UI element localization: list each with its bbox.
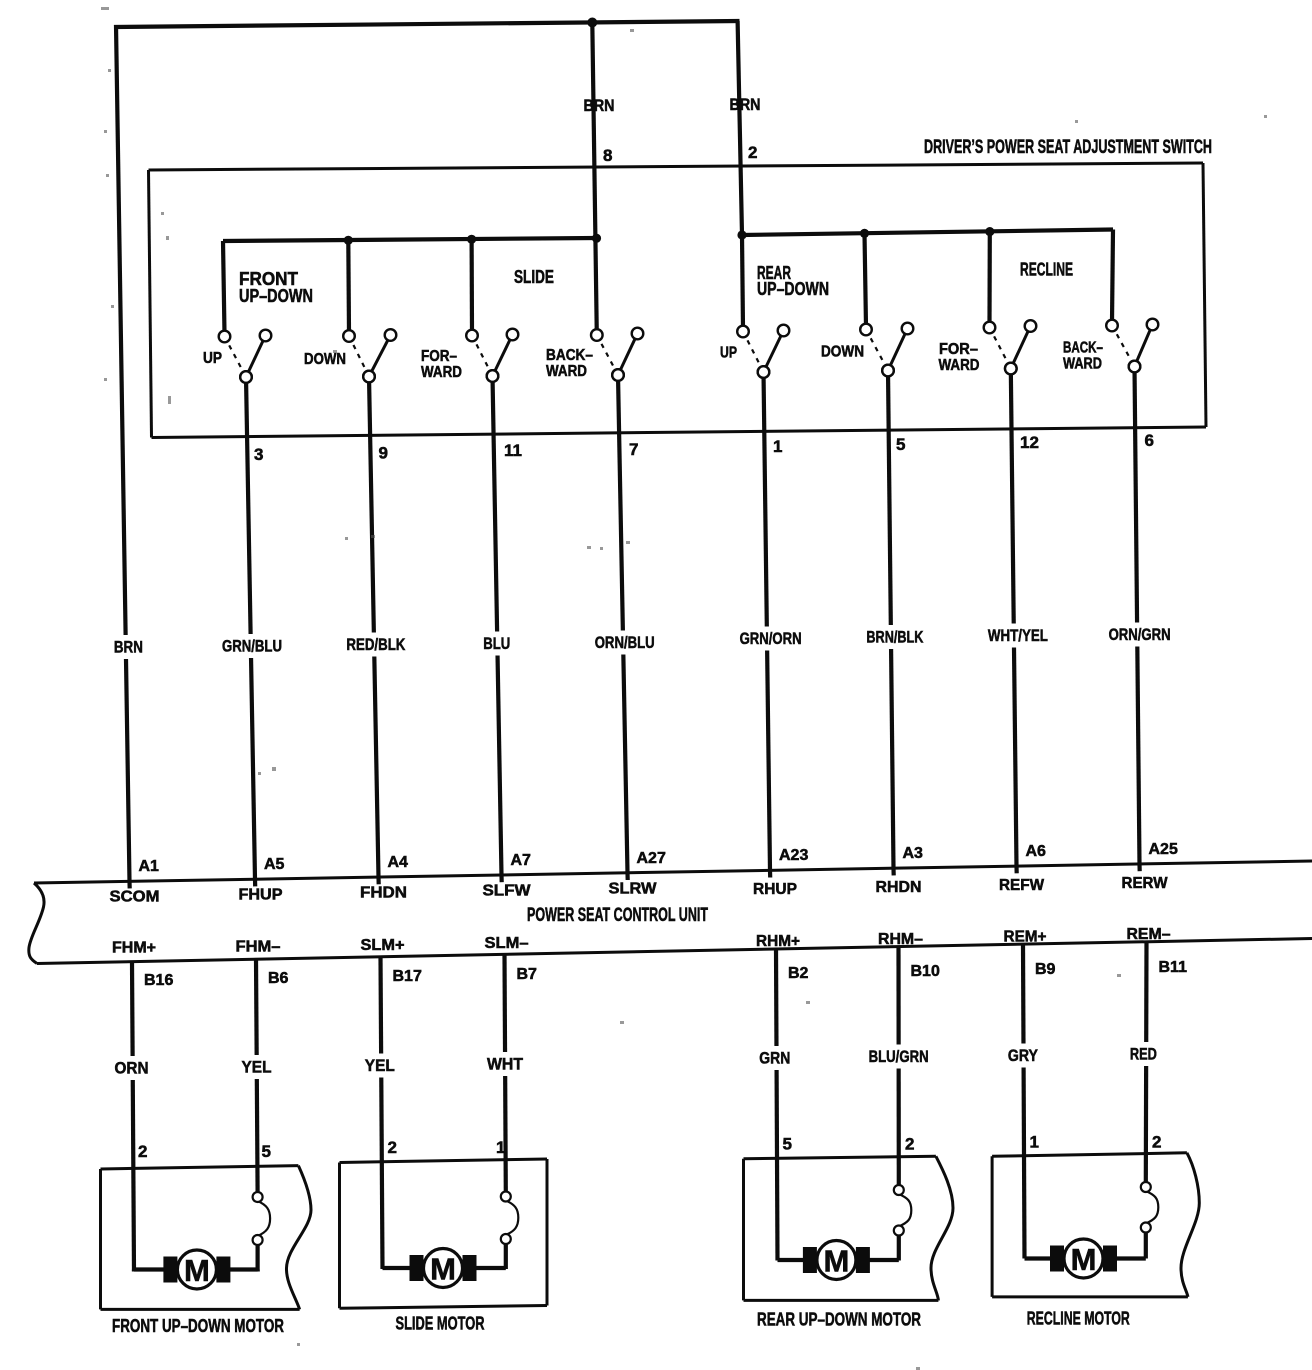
switch: RECLINE FORWARD contact xyxy=(984,320,1037,374)
motor M4 (recline) xyxy=(1050,1239,1117,1278)
svg-text:WARD: WARD xyxy=(939,357,980,374)
wire: A23 stub through control unit edge xyxy=(768,871,772,878)
switch: RECLINE FORWARD contact (lower contact) xyxy=(1005,363,1017,375)
node: bus junction at DOWN branch xyxy=(344,236,353,245)
svg-text:B2: B2 xyxy=(788,965,809,982)
wire: feed to RECLINE FORWARD switch xyxy=(987,232,991,325)
label: wire color WHT/YEL xyxy=(986,624,1050,648)
switch: FRONT UP contact (lower contact) xyxy=(240,371,252,383)
wire: A1 stub through control unit edge xyxy=(127,881,131,888)
svg-text:1: 1 xyxy=(496,1138,505,1157)
wire: motor loop left (front up-down) xyxy=(134,1267,165,1271)
wire: REFW output (pin 12) WHT/YEL run xyxy=(1011,369,1017,867)
box: rear up-down motor enclosure xyxy=(744,1156,936,1158)
wire: FHUP output (pin 3) GRN/BLU run xyxy=(246,377,255,879)
svg-text:FOR–: FOR– xyxy=(421,348,457,365)
label: wire color RED/BLK xyxy=(344,633,407,657)
node: bus junction at pin 2 feed / REAR UP branch xyxy=(737,230,746,239)
switch: SLIDE FORWARD contact (lower contact) xyxy=(487,370,499,382)
wire: A25 stub through control unit edge xyxy=(1137,864,1141,871)
switch: FRONT UP contact xyxy=(219,330,272,383)
wire: motor loop right (recline) xyxy=(1117,1256,1146,1260)
svg-text:5: 5 xyxy=(262,1142,271,1161)
wire: FHM- YEL run with thermal contacts (front up-down motor) xyxy=(253,959,271,1271)
wire: SCOM vertical run from top-left corner down to control unit pin A1 xyxy=(116,25,130,881)
svg-text:WARD: WARD xyxy=(546,363,587,380)
svg-text:A5: A5 xyxy=(264,856,285,873)
label: wire color BLU xyxy=(481,632,512,656)
svg-text:B7: B7 xyxy=(517,966,538,983)
svg-text:2: 2 xyxy=(138,1142,147,1161)
svg-text:SLM–: SLM– xyxy=(485,935,529,952)
wire: REM+ GRY run to recline motor xyxy=(1023,944,1025,1258)
svg-text:B11: B11 xyxy=(1159,959,1188,976)
svg-text:BLU/GRN: BLU/GRN xyxy=(869,1047,929,1066)
switch: REAR DOWN contact xyxy=(860,323,913,377)
svg-text:2: 2 xyxy=(748,143,757,162)
label: wire color BRN/BLK xyxy=(864,625,925,649)
wire: A5 stub through control unit edge xyxy=(253,879,257,886)
wire: BRN branch to switch pin 2 xyxy=(738,21,742,235)
switch: SLIDE BACKWARD contact (lower contact) xyxy=(612,369,624,381)
svg-text:B16: B16 xyxy=(144,972,173,989)
svg-text:ORN/BLU: ORN/BLU xyxy=(595,633,655,652)
label: wire color BRN xyxy=(112,635,145,659)
switch: RECLINE BACKWARD contact xyxy=(1106,319,1158,373)
switch: RECLINE BACKWARD contact (lower contact) xyxy=(1129,361,1141,373)
svg-text:RHM–: RHM– xyxy=(878,931,923,948)
motor M1 (front up-down) xyxy=(163,1250,230,1289)
svg-text:M: M xyxy=(823,1244,849,1279)
svg-text:FOR–: FOR– xyxy=(939,341,978,358)
label: wire color ORN (motor feed) xyxy=(113,1056,151,1080)
svg-text:3: 3 xyxy=(254,445,263,464)
svg-text:ORN/GRN: ORN/GRN xyxy=(1109,625,1171,644)
wire: REM- RED run with thermal contacts (recline motor) xyxy=(1141,942,1159,1259)
box: front up-down motor enclosure xyxy=(101,1166,299,1169)
node: bus junction at BACKWARD branch / pin 8 feed xyxy=(592,234,601,243)
motor M3 (rear up-down) xyxy=(803,1241,870,1280)
svg-text:2: 2 xyxy=(905,1135,914,1154)
svg-text:FHUP: FHUP xyxy=(239,887,283,904)
label: wire color YEL (motor feed) xyxy=(363,1054,397,1078)
svg-text:RHUP: RHUP xyxy=(753,881,797,898)
svg-text:UP–DOWN: UP–DOWN xyxy=(757,279,829,299)
switch: SLIDE BACKWARD contact xyxy=(591,328,643,381)
wire: feed to RECLINE BACKWARD switch xyxy=(1112,230,1113,323)
svg-text:DOWN: DOWN xyxy=(304,351,346,368)
wire: BRN branch to switch pin 8 xyxy=(592,23,597,336)
svg-text:M: M xyxy=(430,1252,456,1287)
svg-text:ORN: ORN xyxy=(115,1059,149,1078)
svg-text:A4: A4 xyxy=(388,854,409,871)
svg-text:9: 9 xyxy=(379,444,388,463)
node: junction of BRN branch 8 on top feed xyxy=(587,18,597,28)
switch: REAR UP contact xyxy=(737,325,789,378)
svg-text:5: 5 xyxy=(783,1135,792,1154)
svg-text:UP: UP xyxy=(720,345,737,362)
box: recline motor enclosure xyxy=(992,1153,1187,1157)
svg-text:A6: A6 xyxy=(1026,843,1047,860)
svg-text:BACK–: BACK– xyxy=(1063,340,1103,357)
wire: motor loop left (recline) xyxy=(1025,1256,1051,1260)
svg-text:GRY: GRY xyxy=(1008,1046,1039,1065)
wire: A3 stub through control unit edge xyxy=(891,868,895,875)
switch: FRONT DOWN contact xyxy=(343,329,396,382)
svg-text:REFW: REFW xyxy=(999,877,1045,894)
svg-text:B17: B17 xyxy=(393,968,422,985)
svg-text:7: 7 xyxy=(629,440,638,459)
box: slide motor enclosure xyxy=(340,1159,548,1163)
wire: motor loop right (front up-down) xyxy=(229,1267,258,1271)
svg-text:REM–: REM– xyxy=(1127,926,1171,943)
label: wire color GRY (motor feed) xyxy=(1006,1044,1040,1068)
svg-text:BLU: BLU xyxy=(483,634,510,653)
wire: top horizontal feed (BRN bus) xyxy=(114,21,740,27)
label: wire color GRN/ORN xyxy=(738,627,804,651)
svg-text:11: 11 xyxy=(504,441,522,460)
svg-text:FHM+: FHM+ xyxy=(112,940,156,957)
svg-text:6: 6 xyxy=(1145,431,1154,450)
svg-text:WARD: WARD xyxy=(1063,356,1102,373)
svg-text:RHDN: RHDN xyxy=(876,879,922,896)
svg-text:YEL: YEL xyxy=(365,1056,395,1075)
wire: feed to UP switch xyxy=(223,241,225,333)
wire: left internal bus (front up-down / slide) xyxy=(223,238,597,241)
svg-text:REM+: REM+ xyxy=(1004,929,1047,946)
wire: feed to FORWARD switch xyxy=(470,239,475,332)
svg-text:M: M xyxy=(1071,1242,1097,1277)
wire: motor loop right (rear up-down) xyxy=(870,1258,899,1262)
wire: SLRW output (pin 7) ORN/BLU run xyxy=(618,375,628,873)
svg-text:1: 1 xyxy=(773,437,782,456)
wire: RHUP output (pin 1) GRN/ORN run xyxy=(764,372,771,871)
wire: motor loop right (slide) xyxy=(476,1266,506,1270)
svg-text:BRN/BLK: BRN/BLK xyxy=(866,628,924,647)
box: power seat control unit torn left edge xyxy=(29,883,44,964)
node: bus junction at REAR DOWN branch xyxy=(860,229,869,238)
svg-text:8: 8 xyxy=(603,146,612,165)
svg-text:A7: A7 xyxy=(511,852,532,869)
svg-text:RECLINE: RECLINE xyxy=(1020,260,1073,280)
svg-text:A1: A1 xyxy=(139,858,160,875)
wire: A27 stub through control unit edge xyxy=(625,873,629,880)
svg-text:SLFW: SLFW xyxy=(483,883,532,900)
svg-text:BRN: BRN xyxy=(584,96,615,115)
svg-text:FRONT UP–DOWN MOTOR: FRONT UP–DOWN MOTOR xyxy=(112,1316,284,1336)
svg-text:SCOM: SCOM xyxy=(110,889,160,906)
svg-text:GRN: GRN xyxy=(759,1049,790,1068)
wire: feed to REAR DOWN switch xyxy=(865,233,867,326)
svg-text:B10: B10 xyxy=(911,963,940,980)
svg-text:2: 2 xyxy=(388,1138,397,1157)
wire: SLFW output (pin 11) BLU run xyxy=(493,376,502,875)
svg-text:BRN: BRN xyxy=(114,638,143,657)
wire: A7 stub through control unit edge xyxy=(499,875,503,882)
wire: SLM+ YEL run to slide motor xyxy=(381,957,383,1269)
svg-text:M: M xyxy=(184,1253,210,1288)
wire: RHDN output (pin 5) BRN/BLK run xyxy=(888,371,894,869)
label: wire color BLU/GRN (motor feed) xyxy=(867,1045,931,1069)
label: wire color RED (motor feed) xyxy=(1128,1042,1159,1066)
svg-text:A3: A3 xyxy=(903,845,924,862)
svg-text:RED: RED xyxy=(1130,1045,1157,1064)
svg-text:RED/BLK: RED/BLK xyxy=(346,635,406,654)
svg-text:YEL: YEL xyxy=(242,1058,272,1077)
wire: motor loop left (slide) xyxy=(383,1266,411,1270)
svg-text:UP–DOWN: UP–DOWN xyxy=(239,286,313,306)
wire: motor loop left (rear up-down) xyxy=(778,1258,804,1262)
wire: FHDN output (pin 9) RED/BLK run xyxy=(369,377,379,878)
svg-text:FHDN: FHDN xyxy=(360,885,407,902)
svg-text:POWER SEAT CONTROL UNIT: POWER SEAT CONTROL UNIT xyxy=(527,905,708,926)
svg-text:RHM+: RHM+ xyxy=(756,933,800,950)
svg-text:1: 1 xyxy=(1030,1133,1039,1152)
svg-text:SLRW: SLRW xyxy=(609,881,658,898)
node: bus junction at RECLINE FORWARD branch xyxy=(985,227,994,236)
wire: A4 stub through control unit edge xyxy=(376,877,380,884)
svg-text:SLM+: SLM+ xyxy=(361,937,405,954)
motor M2 (slide) xyxy=(410,1249,477,1288)
svg-text:DOWN: DOWN xyxy=(821,344,864,361)
label: wire color YEL (motor feed) xyxy=(240,1055,274,1079)
svg-text:12: 12 xyxy=(1020,433,1039,452)
svg-text:DRIVER’S POWER SEAT ADJUSTMENT: DRIVER’S POWER SEAT ADJUSTMENT SWITCH xyxy=(924,137,1212,158)
svg-text:BRN: BRN xyxy=(730,95,761,114)
switch: SLIDE FORWARD contact xyxy=(466,329,518,382)
svg-text:RECLINE MOTOR: RECLINE MOTOR xyxy=(1027,1309,1130,1329)
svg-text:B6: B6 xyxy=(268,970,289,987)
wire: RERW output (pin 6) ORN/GRN run xyxy=(1135,367,1140,865)
svg-text:GRN/ORN: GRN/ORN xyxy=(740,629,802,648)
svg-text:GRN/BLU: GRN/BLU xyxy=(222,637,282,656)
svg-text:SLIDE MOTOR: SLIDE MOTOR xyxy=(396,1314,485,1334)
node: bus junction at FORWARD branch xyxy=(467,235,476,244)
wire: RHM+ GRN run to rear up-down motor xyxy=(776,949,778,1261)
wire: right internal bus (rear up-down / recline) xyxy=(742,230,1113,236)
svg-text:WHT/YEL: WHT/YEL xyxy=(988,626,1048,645)
svg-text:A23: A23 xyxy=(779,847,808,864)
switch: REAR DOWN contact (lower contact) xyxy=(882,365,894,377)
wire: feed to REAR UP switch xyxy=(742,235,743,329)
wire: A6 stub through control unit edge xyxy=(1014,866,1018,873)
svg-text:WHT: WHT xyxy=(487,1055,524,1074)
switch: REAR UP contact (lower contact) xyxy=(758,366,770,378)
switch: FRONT DOWN contact (lower contact) xyxy=(363,371,375,383)
svg-text:UP: UP xyxy=(203,350,222,367)
box: power seat control unit bottom edge xyxy=(37,939,1312,964)
label: wire color WHT (motor feed) xyxy=(485,1052,525,1076)
box: driver's power seat adjustment switch outline xyxy=(149,163,1204,170)
svg-text:5: 5 xyxy=(896,435,905,454)
svg-text:WARD: WARD xyxy=(421,364,462,381)
label: wire color ORN/BLU xyxy=(593,631,657,655)
box: power seat control unit top edge xyxy=(34,861,1312,883)
wire: RHM- BLU/GRN run with thermal contacts (rear up-down motor) xyxy=(894,947,912,1261)
svg-text:RERW: RERW xyxy=(1122,875,1169,892)
label: wire color ORN/GRN xyxy=(1107,623,1173,647)
svg-text:FHM–: FHM– xyxy=(236,939,281,956)
svg-text:A27: A27 xyxy=(637,850,666,867)
label: wire color GRN/BLU xyxy=(220,634,284,658)
svg-text:A25: A25 xyxy=(1149,841,1178,858)
svg-text:BACK–: BACK– xyxy=(546,347,593,364)
svg-text:REAR UP–DOWN MOTOR: REAR UP–DOWN MOTOR xyxy=(757,1310,921,1330)
wire: feed to DOWN switch xyxy=(346,240,351,333)
svg-text:2: 2 xyxy=(1152,1133,1161,1152)
svg-text:SLIDE: SLIDE xyxy=(514,267,554,287)
svg-text:B9: B9 xyxy=(1035,961,1056,978)
wire: FHM+ ORN run to front up-down motor xyxy=(132,962,134,1272)
wire: SLM- WHT run with thermal contacts (slide motor) xyxy=(501,954,519,1269)
label: wire color GRN (motor feed) xyxy=(757,1046,792,1070)
